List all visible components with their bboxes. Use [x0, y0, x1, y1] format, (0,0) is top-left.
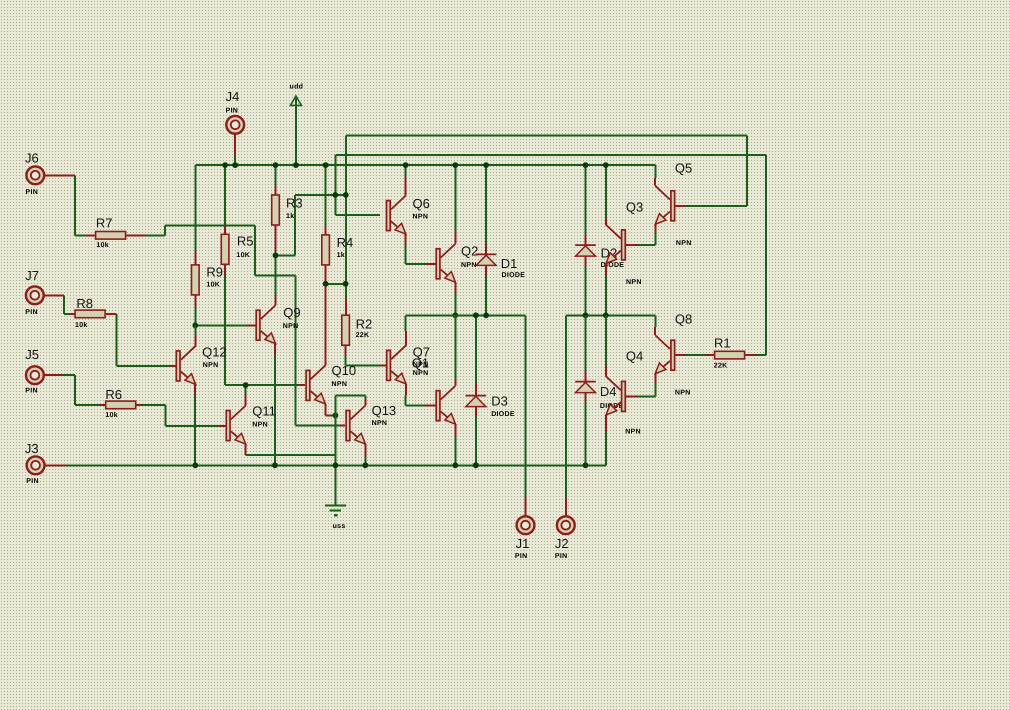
wire J5 down	[74, 375, 76, 405]
wire Q13 emitter	[364, 444, 366, 457]
svg-text:NPN: NPN	[252, 421, 268, 428]
wire D4 bottom	[585, 402, 587, 466]
wire Q7 emitter to Q1 base	[405, 384, 407, 396]
wire J2 drop	[565, 315, 567, 497]
wire node down to rail	[334, 415, 336, 465]
svg-text:NPN: NPN	[625, 428, 641, 435]
transistor Q5	[671, 191, 675, 221]
svg-text:udd: udd	[290, 82, 304, 90]
wire Q12 base	[117, 365, 170, 367]
diode D4	[585, 372, 587, 382]
wire Q13 collector stub	[361, 394, 365, 396]
wire R5 bottom down	[224, 276, 226, 385]
transistor Q11	[226, 411, 230, 441]
svg-text:PIN: PIN	[26, 478, 39, 485]
svg-text:Q2: Q2	[461, 244, 478, 259]
junction node rail / ground	[333, 462, 339, 468]
wire Q2 collector	[454, 232, 456, 244]
junction R5 rail	[222, 162, 228, 168]
wire J3 lead	[45, 464, 66, 466]
diode D1	[485, 245, 487, 255]
pin J5	[26, 366, 44, 384]
pin J3	[27, 456, 45, 474]
transistor Q2	[436, 249, 440, 279]
junction Q2 emitter W3	[452, 312, 458, 318]
svg-text:R8: R8	[76, 296, 93, 311]
svg-text:R1: R1	[714, 336, 731, 351]
wire Q6 emitter to Q2 base	[405, 234, 407, 245]
svg-text:Q9: Q9	[283, 305, 300, 320]
pin J1	[517, 516, 535, 534]
transistor Q6	[387, 201, 391, 231]
junction R9/Q12/Q9	[192, 323, 198, 329]
junction Q13 emitter rail	[362, 462, 368, 468]
svg-text:10K: 10K	[206, 281, 220, 288]
resistor R6	[99, 404, 105, 406]
svg-text:J3: J3	[25, 441, 39, 456]
svg-text:NPN: NPN	[332, 381, 348, 388]
wire Q1 emitter	[454, 424, 456, 437]
wire to R7	[75, 234, 86, 236]
wire Q2 emitter	[454, 282, 456, 294]
wire W3 right segment	[566, 314, 656, 316]
wire J6 lead	[44, 174, 75, 176]
power flag udd	[290, 96, 301, 105]
wire right vertical to R1	[765, 155, 767, 355]
svg-text:J4: J4	[226, 89, 240, 104]
svg-text:DIODE: DIODE	[502, 272, 526, 279]
junction D1 rail	[483, 162, 489, 168]
wire Q13 base	[295, 424, 340, 426]
junction R4 rail	[323, 162, 329, 168]
wire Q5 base	[675, 205, 686, 207]
wire Q4 collector	[605, 366, 607, 376]
junction R3 bottom	[273, 253, 279, 259]
wire D1 bottom	[485, 276, 487, 315]
wire Q6 collector	[405, 178, 407, 196]
diode D2	[585, 235, 587, 245]
svg-text:R4: R4	[337, 235, 354, 250]
wire W2 corner down to Q6 base	[334, 155, 336, 215]
wire R2 bottom to Q7 base	[345, 356, 347, 365]
svg-text:DIODE: DIODE	[601, 262, 625, 269]
junction D1 W3	[483, 312, 489, 318]
wire D2 to W3	[585, 265, 587, 315]
wire rail to R5	[224, 165, 226, 226]
pin J7	[26, 286, 44, 304]
junction udd rail	[293, 162, 299, 168]
svg-text:Q13: Q13	[372, 403, 397, 418]
wire R3 bottom jog	[276, 254, 295, 256]
svg-text:R5: R5	[237, 234, 254, 249]
svg-text:NPN: NPN	[676, 240, 692, 247]
pin J4	[226, 116, 244, 134]
svg-text:PIN: PIN	[515, 553, 528, 560]
wire Q10 emitter jog	[324, 404, 326, 415]
wire R1 right segment	[756, 354, 766, 356]
wire Q7 collector	[405, 331, 407, 345]
svg-text:PIN: PIN	[226, 107, 239, 114]
resistor R8	[70, 313, 74, 315]
wire R5 to Q10 base	[225, 384, 300, 386]
svg-text:D1: D1	[501, 256, 518, 271]
wire rail to R9	[194, 165, 196, 252]
wire Q5 emitter to Q3 base	[654, 224, 656, 231]
svg-text:NPN: NPN	[413, 370, 429, 377]
transistor Q12	[176, 351, 180, 381]
ground symbol uss	[325, 504, 346, 506]
transistor Q13	[346, 411, 350, 441]
wire Q3 emitter	[605, 263, 607, 275]
wire Q6 base	[335, 214, 380, 216]
wire R7 right	[145, 234, 165, 236]
wire J1 drop	[525, 315, 527, 497]
svg-text:uss: uss	[333, 523, 346, 530]
wire node up	[334, 395, 336, 415]
wire Q11 emitter to node	[246, 454, 336, 456]
wire feedback vertical right Q5	[746, 136, 748, 206]
wire R7 jog down	[254, 226, 256, 276]
wire Q5 collector	[654, 178, 656, 186]
wire Q9 base link	[195, 324, 248, 326]
wire VDD rail	[195, 164, 655, 166]
resistor R9	[194, 252, 196, 265]
wire rail to Q3 collector	[605, 165, 607, 218]
svg-text:J1: J1	[516, 536, 530, 551]
junction D3 rail	[473, 462, 479, 468]
svg-text:NPN: NPN	[203, 362, 219, 369]
wire R4-R2 link	[326, 283, 346, 285]
svg-text:J7: J7	[25, 268, 39, 283]
svg-text:10K: 10K	[236, 252, 250, 259]
junction R4 link b	[343, 281, 349, 287]
wire Q12 collector	[194, 336, 196, 346]
junction D2 W3	[583, 312, 589, 318]
wire D3 bottom	[475, 416, 477, 465]
junction Q3 rail	[603, 162, 609, 168]
wire J5 lead	[44, 374, 62, 376]
junction Q6 collector rail	[403, 162, 409, 168]
resistor R4	[325, 226, 327, 235]
svg-text:DIODE: DIODE	[491, 411, 515, 418]
junction R3 rail	[273, 162, 279, 168]
wire J7 lead	[44, 294, 64, 296]
svg-text:R6: R6	[105, 387, 122, 402]
junction Q12 emitter rail	[192, 462, 198, 468]
wire Q11 collector	[245, 395, 247, 405]
resistor R1	[706, 354, 714, 356]
wire node to Q13 collector	[335, 394, 361, 396]
wire Q4 base	[637, 395, 656, 397]
wire Q8 collector	[654, 327, 656, 335]
wire J4 lead	[234, 134, 236, 156]
transistor Q8	[671, 340, 675, 370]
wire node B vertical	[294, 195, 296, 256]
junction Q9 emitter rail	[272, 462, 278, 468]
svg-text:Q11: Q11	[252, 404, 276, 419]
junction D3 W3	[473, 312, 479, 318]
wire feedback lower (to R1)	[335, 154, 766, 156]
junction node B b	[343, 192, 349, 198]
wire D3 top	[475, 315, 477, 384]
svg-text:PIN: PIN	[555, 553, 568, 560]
svg-text:22K: 22K	[714, 362, 728, 369]
transistor Q1	[436, 391, 440, 421]
svg-text:10k: 10k	[96, 241, 109, 249]
svg-text:10k: 10k	[105, 411, 118, 419]
wire bottom rail	[65, 464, 606, 466]
wire Q11 emitter down	[245, 444, 247, 455]
wire rail to R3	[275, 165, 277, 186]
svg-text:10k: 10k	[75, 321, 88, 329]
svg-text:J2: J2	[555, 536, 569, 551]
svg-text:Q12: Q12	[202, 345, 227, 360]
wire R7 jog right	[165, 225, 255, 227]
wire R6 right	[142, 404, 165, 406]
wire rail to R4	[325, 165, 327, 226]
junction Q3/Q4 W3	[603, 312, 609, 318]
svg-text:J5: J5	[25, 347, 39, 362]
wire Q11 base	[165, 425, 220, 427]
svg-text:PIN: PIN	[26, 189, 39, 196]
svg-text:Q4: Q4	[626, 349, 643, 364]
svg-text:NPN: NPN	[461, 262, 477, 269]
svg-text:Q5: Q5	[675, 161, 692, 176]
wire J7 down	[63, 295, 65, 314]
wire node B horizontal	[295, 194, 346, 196]
wire R2 top	[345, 300, 347, 315]
wire Q1 collector	[454, 381, 456, 386]
pin J2	[557, 516, 575, 534]
svg-text:D4: D4	[600, 384, 617, 399]
svg-text:NPN: NPN	[413, 213, 429, 220]
junction D4 rail	[583, 462, 589, 468]
junction D3 bottom rail	[473, 462, 479, 468]
diode D3	[475, 384, 477, 396]
wire Q9 emitter	[274, 344, 276, 355]
wire Q3 base	[637, 244, 656, 246]
junction R4 link a	[323, 281, 329, 287]
wire feedback upper (to Q5 base)	[346, 135, 747, 137]
svg-text:Q3: Q3	[626, 199, 643, 214]
svg-text:J6: J6	[25, 151, 39, 166]
wire R3 bottom	[275, 252, 277, 255]
wire R4 bottom to Q10 collector	[325, 265, 327, 365]
transistor Q9	[256, 310, 260, 340]
resistor R7	[86, 234, 95, 236]
svg-text:NPN: NPN	[413, 362, 429, 369]
wire to R8	[64, 313, 70, 315]
junction J4 rail	[232, 162, 238, 168]
wire Q8 emitter to Q4 base	[654, 374, 656, 383]
wire J6 down	[74, 175, 76, 235]
svg-text:D3: D3	[491, 394, 508, 409]
wire ground stem	[334, 465, 336, 505]
svg-text:NPN: NPN	[372, 420, 388, 427]
resistor R5	[224, 226, 226, 234]
wire Q4 emitter	[605, 415, 607, 431]
svg-text:1k: 1k	[286, 212, 294, 220]
transistor Q10	[306, 370, 310, 400]
svg-text:22K: 22K	[356, 332, 370, 339]
svg-text:Q8: Q8	[675, 311, 692, 326]
junction Q11 collector	[243, 382, 249, 388]
transistor Q7	[387, 350, 391, 380]
svg-text:1k: 1k	[337, 251, 345, 259]
wire W3 left segment	[406, 314, 526, 316]
junction Q1 emitter rail	[452, 462, 458, 468]
wire down to Q13 base node	[294, 275, 296, 425]
resistor R3	[275, 187, 277, 196]
svg-text:R7: R7	[96, 216, 113, 231]
wire W3 to D4	[585, 315, 587, 371]
wire rail to D1	[485, 165, 487, 244]
wire Q9 collector	[275, 295, 277, 305]
wire to R6	[75, 404, 99, 406]
wire Q12 emitter	[194, 384, 196, 396]
svg-text:NPN: NPN	[626, 279, 642, 286]
wire R6 down	[164, 405, 166, 426]
svg-text:R9: R9	[206, 265, 223, 280]
resistor R2	[342, 315, 350, 345]
wire R8 down to Q12 base	[116, 314, 118, 366]
wire Q8 base to R1	[675, 354, 686, 356]
wire R7 jog up	[164, 226, 166, 236]
svg-text:R2: R2	[356, 317, 373, 332]
junction node B a	[332, 192, 338, 198]
wire Q3 collector stub	[605, 218, 607, 225]
wire W1 corner down to R2	[345, 136, 347, 301]
wire R3 node to Q9 collector	[275, 255, 277, 295]
wire R9 bottom to node	[194, 307, 196, 325]
wire R7 jog right 2	[255, 274, 295, 276]
svg-text:PIN: PIN	[25, 388, 38, 395]
svg-text:Q6: Q6	[413, 196, 430, 211]
wire rail to D2	[585, 165, 587, 235]
junction Q10 emitter node	[333, 413, 339, 419]
pin J6	[26, 166, 44, 184]
svg-text:PIN: PIN	[25, 309, 38, 316]
svg-text:R3: R3	[286, 196, 303, 211]
svg-text:Q10: Q10	[332, 363, 357, 378]
transistor Q4	[622, 381, 626, 411]
junction D2 rail	[583, 162, 589, 168]
svg-text:NPN: NPN	[675, 389, 691, 396]
junction Q2 collector rail	[452, 162, 458, 168]
transistor Q3	[622, 230, 626, 260]
svg-text:NPN: NPN	[283, 323, 299, 330]
